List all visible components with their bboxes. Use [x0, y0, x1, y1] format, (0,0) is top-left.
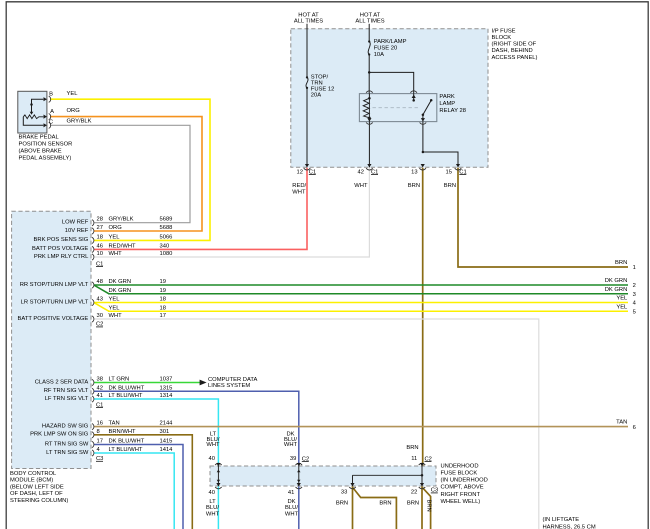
svg-text:WHT: WHT	[354, 183, 368, 189]
svg-text:19: 19	[160, 288, 166, 294]
svg-text:WHT: WHT	[292, 190, 306, 196]
svg-text:BODY CONTROL: BODY CONTROL	[10, 471, 57, 477]
svg-text:YEL: YEL	[616, 304, 628, 310]
svg-text:TAN: TAN	[109, 421, 120, 427]
svg-text:30: 30	[97, 313, 103, 319]
svg-text:39: 39	[290, 456, 296, 462]
svg-text:40: 40	[209, 490, 215, 496]
svg-text:BRN: BRN	[425, 500, 431, 512]
svg-text:HARNESS, 26.5 CM: HARNESS, 26.5 CM	[543, 524, 596, 529]
svg-text:43: 43	[97, 297, 103, 303]
svg-text:OF DASH, LEFT OF: OF DASH, LEFT OF	[10, 491, 63, 497]
svg-text:18: 18	[160, 305, 166, 311]
svg-text:40: 40	[209, 456, 215, 462]
svg-text:41: 41	[97, 393, 103, 399]
svg-text:BRN: BRN	[615, 260, 627, 266]
svg-text:5066: 5066	[160, 234, 173, 240]
svg-text:BATT POS VOLTAGE: BATT POS VOLTAGE	[32, 246, 88, 252]
svg-text:(ABOVE BRAKE: (ABOVE BRAKE	[19, 149, 62, 155]
svg-text:RT TRN SIG SW: RT TRN SIG SW	[45, 441, 89, 447]
svg-text:1: 1	[633, 265, 636, 271]
svg-text:16: 16	[97, 421, 103, 427]
svg-text:LR STOP/TURN LMP VLT: LR STOP/TURN LMP VLT	[21, 299, 89, 305]
svg-text:5689: 5689	[160, 217, 173, 223]
svg-text:2144: 2144	[160, 421, 174, 427]
svg-text:BRN/WHT: BRN/WHT	[109, 429, 137, 435]
svg-text:ACCESS PANEL): ACCESS PANEL)	[492, 55, 538, 61]
svg-text:340: 340	[160, 243, 170, 249]
svg-text:(BELOW LEFT SIDE: (BELOW LEFT SIDE	[10, 484, 64, 490]
svg-text:I/P FUSE: I/P FUSE	[492, 28, 516, 34]
svg-text:1080: 1080	[160, 251, 173, 257]
svg-text:DK GRN: DK GRN	[605, 287, 628, 293]
svg-text:DK GRN: DK GRN	[605, 278, 628, 284]
svg-text:RELAY 28: RELAY 28	[439, 108, 466, 114]
svg-text:5688: 5688	[160, 225, 173, 231]
svg-text:B: B	[49, 92, 53, 98]
svg-text:LT BLU/WHT: LT BLU/WHT	[109, 393, 143, 399]
svg-text:22: 22	[411, 490, 417, 496]
svg-text:DK GRN: DK GRN	[109, 279, 132, 285]
svg-text:DK BLU/WHT: DK BLU/WHT	[109, 385, 145, 391]
svg-text:LAMP: LAMP	[439, 101, 455, 107]
svg-text:ORG: ORG	[67, 108, 81, 114]
svg-text:RIGHT FRONT: RIGHT FRONT	[441, 492, 481, 498]
svg-text:42: 42	[358, 169, 364, 175]
svg-text:LOW REF: LOW REF	[62, 220, 89, 226]
svg-text:38: 38	[97, 377, 103, 383]
svg-text:20A: 20A	[311, 93, 321, 99]
svg-text:18: 18	[160, 297, 166, 303]
svg-text:DK GRN: DK GRN	[109, 288, 132, 294]
svg-text:BATT POSITIVE VOLTAGE: BATT POSITIVE VOLTAGE	[18, 316, 89, 322]
svg-text:BRN: BRN	[444, 183, 456, 189]
svg-text:33: 33	[341, 490, 347, 496]
svg-text:PEDAL ASSEMBLY): PEDAL ASSEMBLY)	[19, 156, 72, 162]
svg-text:C: C	[49, 119, 53, 125]
svg-text:FUSE BLOCK: FUSE BLOCK	[441, 471, 478, 477]
svg-text:(IN UNDERHOOD: (IN UNDERHOOD	[441, 478, 488, 484]
svg-text:46: 46	[97, 243, 103, 249]
svg-text:GRY/BLK: GRY/BLK	[67, 119, 92, 125]
svg-text:27: 27	[97, 225, 103, 231]
svg-text:YEL: YEL	[67, 91, 79, 97]
svg-text:LT: LT	[209, 499, 216, 505]
svg-text:41: 41	[288, 490, 294, 496]
svg-text:BRN: BRN	[407, 500, 419, 506]
svg-text:PRK LMP SW ON SIG: PRK LMP SW ON SIG	[30, 432, 89, 438]
svg-text:48: 48	[97, 279, 103, 285]
svg-text:8: 8	[97, 429, 100, 435]
svg-text:UNDERHOOD: UNDERHOOD	[441, 463, 479, 469]
svg-text:301: 301	[160, 429, 170, 435]
svg-text:LINES SYSTEM: LINES SYSTEM	[208, 383, 250, 389]
svg-text:BLOCK: BLOCK	[492, 35, 512, 41]
svg-text:WHT: WHT	[284, 442, 298, 448]
svg-text:STEERING COLUMN): STEERING COLUMN)	[10, 498, 68, 504]
svg-text:CLASS 2 SER DATA: CLASS 2 SER DATA	[35, 379, 89, 385]
svg-text:COMPT, ABOVE: COMPT, ABOVE	[441, 485, 484, 491]
svg-text:BRN: BRN	[336, 500, 348, 506]
svg-text:FUSE 20: FUSE 20	[374, 46, 398, 52]
svg-text:ALL TIMES: ALL TIMES	[355, 18, 384, 24]
svg-text:BRN: BRN	[379, 500, 391, 506]
svg-text:LT TRN SIG SW: LT TRN SIG SW	[46, 450, 89, 456]
svg-text:RF TRN SIG VLT: RF TRN SIG VLT	[44, 388, 89, 394]
svg-text:18: 18	[97, 234, 103, 240]
svg-text:PARK: PARK	[439, 94, 454, 100]
svg-text:(IN LIFTGATE: (IN LIFTGATE	[543, 517, 580, 523]
svg-text:DK BLU/WHT: DK BLU/WHT	[109, 439, 145, 445]
svg-text:YEL: YEL	[616, 296, 628, 302]
svg-text:ORG: ORG	[109, 225, 123, 231]
svg-text:BRN: BRN	[406, 445, 418, 451]
svg-text:WHT: WHT	[206, 442, 220, 448]
svg-text:1314: 1314	[160, 393, 174, 399]
svg-text:WHT: WHT	[206, 511, 220, 517]
svg-text:LT GRN: LT GRN	[109, 377, 130, 383]
svg-text:HAZARD SW SIG: HAZARD SW SIG	[42, 423, 89, 429]
svg-text:YEL: YEL	[109, 297, 121, 303]
svg-text:PRK LMP RLY CTRL: PRK LMP RLY CTRL	[34, 254, 89, 260]
svg-text:BRK POS SENS SIG: BRK POS SENS SIG	[34, 237, 89, 243]
svg-text:1415: 1415	[160, 439, 173, 445]
svg-text:3: 3	[633, 292, 636, 298]
svg-text:6: 6	[633, 425, 636, 431]
svg-text:42: 42	[97, 385, 103, 391]
svg-text:10: 10	[97, 251, 103, 257]
svg-text:YEL: YEL	[109, 234, 121, 240]
svg-text:BLU/: BLU/	[285, 505, 298, 511]
svg-text:RED/: RED/	[292, 183, 306, 189]
svg-text:11: 11	[411, 456, 417, 462]
svg-text:5: 5	[633, 310, 636, 316]
svg-text:2: 2	[633, 283, 636, 289]
svg-text:ALL TIMES: ALL TIMES	[294, 18, 323, 24]
svg-text:19: 19	[160, 279, 166, 285]
svg-text:15: 15	[446, 169, 452, 175]
svg-text:12: 12	[297, 169, 303, 175]
svg-text:BRAKE PEDAL: BRAKE PEDAL	[19, 135, 60, 141]
svg-text:BLU/: BLU/	[206, 505, 219, 511]
svg-text:(RIGHT SIDE OF: (RIGHT SIDE OF	[492, 42, 537, 48]
svg-text:LT BLU/WHT: LT BLU/WHT	[109, 447, 143, 453]
svg-text:GRY/BLK: GRY/BLK	[109, 217, 134, 223]
svg-text:RED/WHT: RED/WHT	[109, 243, 137, 249]
svg-text:WHT: WHT	[109, 313, 123, 319]
svg-text:13: 13	[411, 169, 417, 175]
svg-text:RR STOP/TURN LMP VLT: RR STOP/TURN LMP VLT	[20, 282, 89, 288]
svg-text:DK: DK	[287, 499, 295, 505]
svg-text:17: 17	[97, 439, 103, 445]
svg-text:17: 17	[160, 313, 166, 319]
svg-text:28: 28	[97, 217, 103, 223]
svg-text:YEL: YEL	[109, 305, 121, 311]
svg-text:1414: 1414	[160, 447, 174, 453]
svg-text:MODULE (BCM): MODULE (BCM)	[10, 478, 53, 484]
svg-text:10V REF: 10V REF	[65, 228, 89, 234]
svg-text:BRN: BRN	[408, 183, 420, 189]
svg-text:A: A	[50, 109, 54, 115]
svg-text:DASH, BEHIND: DASH, BEHIND	[492, 48, 533, 54]
svg-text:WHT: WHT	[109, 251, 123, 257]
svg-text:WHT: WHT	[285, 511, 299, 517]
svg-text:PARK/LAMP: PARK/LAMP	[374, 39, 407, 45]
svg-text:1315: 1315	[160, 385, 173, 391]
svg-text:LF TRN SIG VLT: LF TRN SIG VLT	[45, 396, 89, 402]
svg-text:1037: 1037	[160, 377, 173, 383]
svg-text:WHEEL WELL): WHEEL WELL)	[441, 499, 481, 505]
svg-text:POSITION SENSOR: POSITION SENSOR	[19, 142, 73, 148]
svg-text:TAN: TAN	[616, 420, 627, 426]
svg-text:10A: 10A	[374, 52, 384, 58]
